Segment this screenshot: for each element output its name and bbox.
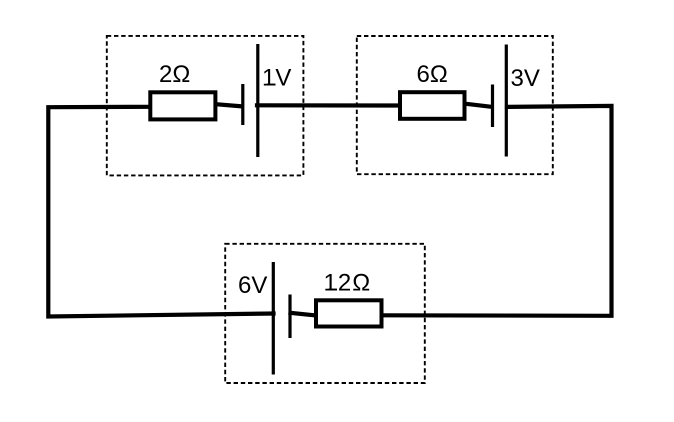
svg-text:12Ω: 12Ω xyxy=(324,270,372,297)
svg-text:6Ω: 6Ω xyxy=(417,61,448,88)
svg-text:6V: 6V xyxy=(238,272,267,299)
svg-text:2Ω: 2Ω xyxy=(159,61,190,88)
svg-text:1V: 1V xyxy=(262,65,291,92)
svg-text:3V: 3V xyxy=(511,65,540,92)
